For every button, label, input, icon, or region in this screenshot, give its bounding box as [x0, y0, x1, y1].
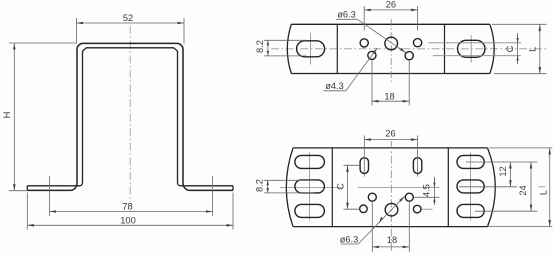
- plate left end arc: [286, 148, 293, 227]
- dimension 18 line (top view): [372, 100, 409, 102]
- hole ø4.3 top-left: [360, 39, 368, 47]
- plate horizontal centerline: [271, 48, 549, 50]
- dimension L line (bottom view): [549, 148, 551, 227]
- leader ø6.3 line (bottom view): [358, 196, 404, 244]
- dimension H extension lines: [9, 42, 76, 44]
- plate top edge: [293, 147, 488, 149]
- plate centerline segments: [280, 186, 342, 188]
- hole row centerline segment right of D: [421, 208, 433, 210]
- dimension 8.2 line (top view): [267, 40, 269, 56]
- dimension 12 line: [509, 162, 511, 187]
- hole ø4.3 top-right: [414, 39, 422, 47]
- pattern vertical centerline (bottom view): [390, 141, 392, 251]
- hole C2 upper-right: [405, 193, 413, 201]
- svg-text:18: 18: [384, 91, 394, 101]
- dimension 52 line: [76, 22, 184, 24]
- plate right end arc: [490, 24, 494, 73]
- dimension 52 extension lines: [75, 18, 77, 44]
- hole D lower-right: [413, 205, 421, 213]
- center vertical slot left: [360, 158, 368, 174]
- dimension 8.2 extension lines (top view): [264, 39, 306, 41]
- right obround slot: [458, 40, 486, 57]
- hole C row extension line bottom: [433, 55, 521, 57]
- dimension 8.2 extension lines (bottom view): [264, 179, 314, 181]
- dimension 26 extension lines: [363, 6, 365, 31]
- dimension 8.2 line (bottom view): [267, 180, 269, 193]
- left slot centerline vertical: [310, 33, 312, 65]
- right slot bottom: [457, 204, 484, 217]
- dimension 78 line: [50, 211, 213, 213]
- hat inner surface: [27, 48, 233, 186]
- section division line left: [331, 148, 333, 227]
- center hole ø6.3 (bottom view): [385, 203, 398, 216]
- hole C row extension line top: [429, 42, 522, 44]
- dimension 26 line: [364, 9, 417, 11]
- centerline vertical (left view): [129, 26, 131, 202]
- hole ø4.3 bottom-right: [405, 52, 413, 60]
- section division line right: [447, 148, 449, 227]
- left obround slot: [297, 41, 325, 57]
- svg-text:52: 52: [123, 13, 133, 23]
- dimension C line (bottom view): [347, 165, 349, 209]
- svg-text:ø4.3: ø4.3: [325, 81, 344, 91]
- dimension L extension lines (top view): [492, 23, 547, 25]
- dimension L extension lines (bottom view): [489, 147, 552, 149]
- left slot middle: [295, 180, 325, 193]
- dimension 18 extension lines (top view): [371, 61, 373, 106]
- leader ø4.3 underline: [323, 90, 345, 92]
- flange end cap left: [26, 186, 28, 191]
- leader ø6.3 underline: [336, 18, 357, 20]
- section division line left: [336, 24, 338, 73]
- dimension 100 extension lines: [26, 193, 28, 230]
- right slot middle: [457, 180, 484, 193]
- svg-text:26: 26: [386, 0, 396, 10]
- leader ø6.3 underline (bottom view): [341, 243, 359, 245]
- svg-text:C: C: [505, 45, 515, 52]
- hole pattern vertical centerline: [390, 19, 392, 82]
- dimension 12 extension lines: [466, 161, 538, 163]
- svg-text:4.5: 4.5: [421, 184, 431, 197]
- centerline dash right (bottom view): [539, 186, 546, 188]
- svg-text:C: C: [335, 183, 345, 190]
- svg-text:26: 26: [385, 129, 395, 139]
- dimension 26 line (bottom view): [364, 139, 417, 141]
- svg-text:H: H: [2, 112, 12, 119]
- svg-text:ø6.3: ø6.3: [337, 9, 356, 19]
- dimension 100 line: [27, 224, 233, 226]
- hole A upper-left: [368, 193, 376, 201]
- svg-text:ø6.3: ø6.3: [340, 235, 359, 245]
- plate bottom edge: [293, 226, 488, 228]
- leader ø6.3 line: [357, 19, 406, 52]
- dimension 78 extension lines (flange hole centers): [49, 176, 51, 216]
- left slot bottom: [295, 204, 325, 217]
- svg-text:L: L: [538, 190, 548, 195]
- dimension 4.5 line (outside arrows): [433, 177, 435, 205]
- svg-text:8.2: 8.2: [255, 40, 265, 53]
- center vertical slot right: [413, 158, 421, 174]
- dimension C line (top view, outside arrows): [517, 33, 519, 64]
- plate left end arc: [287, 24, 291, 73]
- svg-text:24: 24: [518, 185, 528, 195]
- plate bottom edge: [291, 73, 490, 75]
- dimension L line (top view): [539, 24, 541, 73]
- dimension 4.5 extension line: [414, 196, 440, 198]
- svg-text:100: 100: [120, 216, 136, 226]
- right slot column centerline: [470, 153, 472, 221]
- left slot top: [295, 155, 325, 168]
- right slot centerline vertical: [470, 35, 472, 63]
- dimension C extension lines (bottom view): [344, 164, 361, 166]
- svg-text:12: 12: [498, 166, 508, 176]
- svg-text:L: L: [527, 47, 537, 52]
- flange end cap right: [232, 186, 234, 191]
- dimension 24 extension line bottom: [475, 210, 538, 212]
- svg-text:8.2: 8.2: [255, 179, 265, 192]
- left slot column centerline: [308, 153, 310, 221]
- svg-text:18: 18: [387, 235, 397, 245]
- svg-text:78: 78: [122, 202, 132, 212]
- leader ø4.3 line: [346, 48, 378, 91]
- dimension H line: [13, 43, 15, 191]
- hole B lower-left: [360, 205, 368, 213]
- dimension 18 extension lines (bottom view): [371, 202, 373, 252]
- plate top edge: [291, 23, 490, 25]
- section division line right: [444, 24, 446, 73]
- hat outer surface: [27, 43, 233, 190]
- plate right end arc: [488, 148, 496, 227]
- leader ø6.3 mid arrowhead: [379, 217, 383, 224]
- right slot top: [457, 155, 484, 168]
- dimension 26 extension lines (bottom view): [363, 136, 365, 177]
- hole ø4.3 bottom-left: [368, 51, 376, 59]
- center hole ø6.3: [385, 37, 398, 50]
- dimension 18 line (bottom view): [372, 246, 409, 248]
- dimension 24 line: [530, 162, 532, 211]
